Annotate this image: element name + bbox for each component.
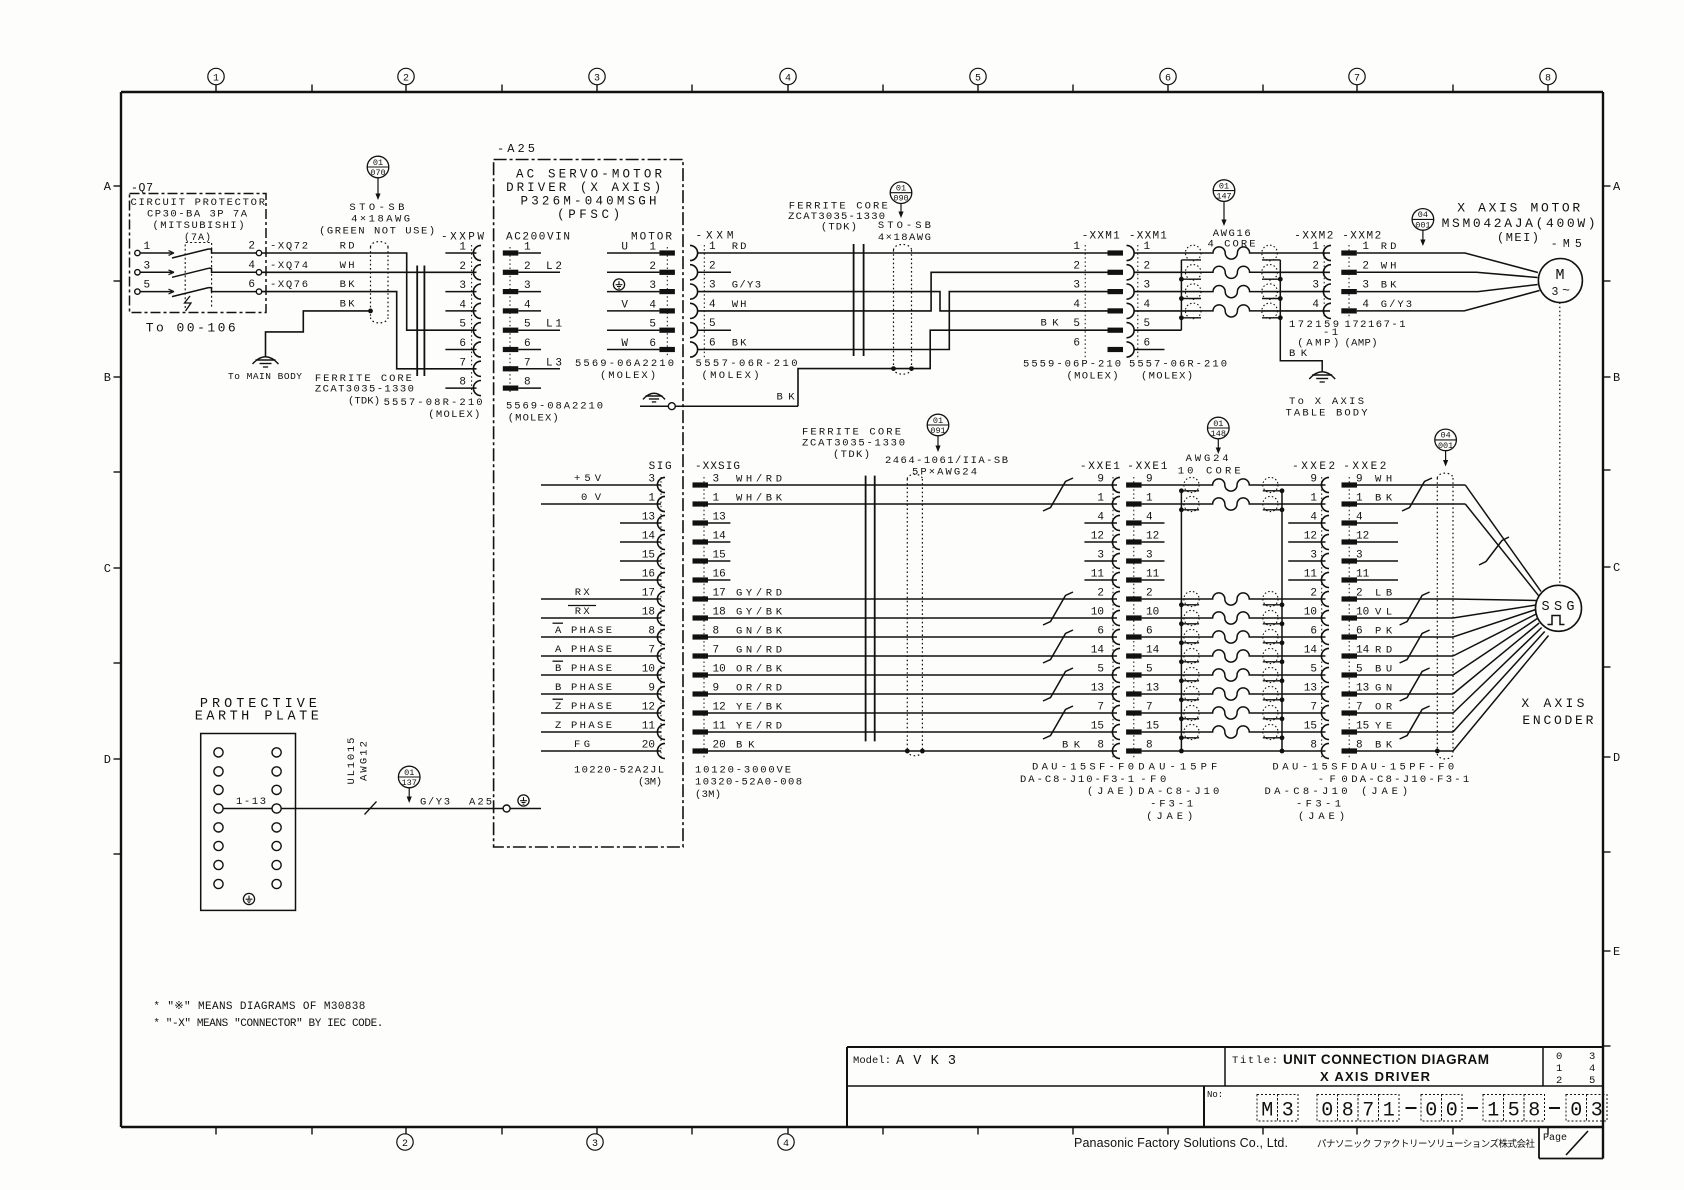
svg-text:1: 1 [713,493,720,505]
svg-text:14: 14 [713,531,727,543]
cable AWG16 pair shields left [1185,245,1201,319]
svg-text:2: 2 [1310,588,1317,600]
svg-text:5: 5 [1589,1075,1595,1087]
svg-text:15: 15 [713,550,726,562]
svg-text:13: 13 [1304,683,1317,695]
svg-text:2: 2 [459,261,466,273]
svg-text:5: 5 [1356,664,1363,676]
svg-text:7: 7 [1354,73,1360,84]
svg-text:10320-52A0-008: 10320-52A0-008 [695,777,802,789]
title block frame [847,1047,1603,1127]
To 00-106 note [146,321,236,336]
motor M5 label [1442,201,1596,252]
connector XXE1 part numbers [1020,762,1219,824]
svg-text:4: 4 [1310,512,1317,524]
svg-text:7: 7 [1097,702,1104,714]
svg-text:(TDK): (TDK) [348,396,380,408]
svg-text:1: 1 [1556,1063,1562,1075]
ferrite core ZCAT3035-1330 encoder [866,476,875,742]
signal labels of SIG [553,473,613,751]
svg-text:001: 001 [1415,220,1430,230]
svg-text:01: 01 [896,184,906,194]
svg-text:-F0: -F0 [1140,774,1166,786]
ferrite core label left [315,373,414,408]
wires XXE2 to encoder sheath [1357,485,1465,751]
svg-text:DAU-15PF-F0: DAU-15PF-F0 [1351,762,1454,774]
connector AC200VIN part number [506,401,603,425]
cable sheath encoder right [1435,473,1453,759]
svg-text:-XQ74: -XQ74 [270,260,308,272]
svg-text:-XQ72: -XQ72 [270,241,308,253]
svg-text:8: 8 [1342,1100,1354,1123]
breaker linkage (7A) [184,232,212,311]
svg-text:14: 14 [1091,645,1105,657]
wire XXM1-RD [698,252,1108,254]
circuit protector Q7 label [131,182,153,195]
svg-text:4: 4 [1097,512,1104,524]
svg-text:5: 5 [1073,318,1080,330]
svg-text:A: A [555,644,562,656]
svg-text:(3M): (3M) [638,777,662,789]
revision mark 01/090 [890,182,912,218]
page field [1539,1127,1603,1159]
svg-text:EARTH PLATE: EARTH PLATE [195,710,319,725]
svg-text:8: 8 [1545,73,1551,84]
svg-text:5: 5 [649,319,656,331]
ground to X axis table body [1286,372,1369,420]
svg-text:B: B [1613,371,1620,385]
svg-text:4: 4 [783,1139,789,1150]
svg-text:3: 3 [592,1139,598,1150]
svg-text:5: 5 [1144,318,1151,330]
svg-text:DRIVER (X AXIS): DRIVER (X AXIS) [506,181,661,195]
svg-text:18: 18 [642,607,655,619]
svg-text:+5V: +5V [574,473,602,485]
svg-text:C: C [104,562,111,576]
svg-text:W: W [621,338,628,350]
svg-text:3: 3 [649,280,656,292]
cable break marks left [1043,478,1073,739]
svg-text:1: 1 [1097,493,1104,505]
svg-text:5: 5 [524,319,531,331]
svg-text:-XXE1: -XXE1 [1080,461,1120,473]
encoder label [1521,696,1593,728]
svg-text:14: 14 [1356,645,1370,657]
svg-text:A25: A25 [469,797,492,809]
svg-text:RX: RX [575,606,591,618]
svg-text:8: 8 [1356,740,1363,752]
svg-text:No:: No: [1207,1090,1223,1100]
svg-text:148: 148 [1211,429,1226,439]
svg-text:2: 2 [1556,1075,1562,1087]
svg-text:6: 6 [1073,338,1080,350]
svg-text:6: 6 [248,279,255,291]
svg-text:9: 9 [1097,474,1104,486]
svg-text:090: 090 [893,194,908,204]
svg-text:6: 6 [649,338,656,350]
svg-text:16: 16 [642,569,655,581]
svg-text:(7A): (7A) [184,232,211,244]
svg-text:10: 10 [1091,607,1104,619]
svg-text:1: 1 [524,242,531,254]
svg-text:13: 13 [1146,683,1159,695]
svg-text:-XXE2: -XXE2 [1292,461,1335,473]
cable AWG16 pair shields right [1262,245,1278,319]
svg-text:6: 6 [1356,626,1363,638]
svg-text:(TDK): (TDK) [821,222,857,234]
svg-text:PHASE: PHASE [571,644,612,656]
svg-text:13: 13 [1091,683,1104,695]
revision mark 01/070 [367,156,389,200]
svg-text:CIRCUIT PROTECTOR: CIRCUIT PROTECTOR [131,197,266,209]
svg-text:パナソニック ファクトリーソリューションズ株式会社: パナソニック ファクトリーソリューションズ株式会社 [1317,1138,1535,1150]
cable sheath STO-SB left [371,242,389,323]
svg-text:8: 8 [1146,740,1153,752]
svg-text:11: 11 [1146,569,1160,581]
svg-text:Panasonic Factory Solutions Co: Panasonic Factory Solutions Co., Ltd. [1074,1136,1288,1150]
svg-text:3: 3 [1282,1100,1294,1123]
svg-text:2: 2 [709,260,716,272]
svg-text:5: 5 [709,318,716,330]
svg-text:4: 4 [1356,512,1363,524]
cable AWG24 pair shields right [1263,477,1278,739]
svg-text:(AMP): (AMP) [1345,338,1378,350]
svg-text:4: 4 [1362,299,1369,311]
svg-text:-XXE2: -XXE2 [1343,461,1386,473]
svg-text:8: 8 [648,626,655,638]
svg-text:15: 15 [1146,721,1159,733]
svg-text:6: 6 [1146,626,1153,638]
breaker pole 5-6 [135,279,262,297]
svg-text:01: 01 [373,158,383,168]
svg-text:10: 10 [642,664,655,676]
svg-text:V: V [621,299,628,311]
connector MOTOR part number [575,358,674,382]
svg-text:(GREEN NOT USE): (GREEN NOT USE) [319,226,435,238]
svg-text:091: 091 [930,426,945,436]
svg-text:3: 3 [1144,280,1151,292]
svg-text:4: 4 [248,260,255,272]
connector pair XXE2 [1263,461,1398,759]
svg-text:3: 3 [1552,286,1559,299]
ferrite core label encoder [802,427,905,462]
svg-text:SIG: SIG [649,461,672,473]
drawing number field [1207,1090,1607,1123]
svg-text:3: 3 [594,73,600,84]
svg-text:10: 10 [713,664,726,676]
svg-text:11: 11 [642,721,656,733]
svg-text:0: 0 [1425,1100,1437,1123]
svg-text:1: 1 [1146,493,1153,505]
svg-text:A: A [1613,180,1621,194]
svg-text:5: 5 [1310,664,1317,676]
wire shield BK to XXM1 pin5 [777,330,1108,406]
wires XXSIG to XXE1 [708,485,1117,751]
svg-text:1: 1 [1312,241,1319,253]
revision mark 01/148 [1208,417,1230,454]
svg-text:7: 7 [1362,1100,1374,1123]
svg-text:8: 8 [713,626,720,638]
svg-text:E: E [1613,945,1620,959]
svg-text:3: 3 [1589,1051,1595,1063]
circuit protector Q7 box [130,194,267,313]
wire labels UL1015 AWG12 [346,738,371,785]
connector XXM1 part numbers [1023,359,1227,383]
svg-text:To 00-106: To 00-106 [146,321,236,336]
svg-text:5569-08A2210: 5569-08A2210 [506,401,603,413]
servo driver A25 box [494,142,683,847]
connector XXPW [441,232,484,397]
svg-text:B: B [104,371,111,385]
connector XXSIG [693,461,783,759]
svg-text:12: 12 [713,702,726,714]
cable sheath STO-SB mid [891,244,914,374]
svg-text:PHASE: PHASE [571,720,612,732]
svg-text:2: 2 [1097,588,1104,600]
revision mark 04/001 encoder [1435,429,1457,466]
svg-text:10: 10 [1146,607,1159,619]
svg-text:* "※" MEANS DIAGRAMS OF M30838: * "※" MEANS DIAGRAMS OF M30838 [153,1001,365,1013]
svg-text:(3M): (3M) [695,789,721,801]
svg-text:3: 3 [713,474,720,486]
svg-text:147: 147 [1216,192,1231,202]
svg-text:4: 4 [1589,1063,1595,1075]
svg-text:Z: Z [555,720,561,732]
svg-text:(MOLEX): (MOLEX) [702,370,760,382]
svg-text:-XXSIG: -XXSIG [695,461,740,473]
svg-text:BK: BK [732,338,747,350]
cable label STO-SB mid [878,220,931,244]
ferrite core ZCAT3035-1330 left [417,266,424,377]
svg-text:7: 7 [1310,702,1317,714]
model field [853,1054,956,1069]
connector XXM [690,231,761,358]
svg-text:3: 3 [1310,550,1317,562]
svg-text:1: 1 [1487,1100,1499,1123]
wire label G/Y3 A25 [420,797,492,809]
svg-text:2: 2 [1144,260,1151,272]
svg-text:(MOLEX): (MOLEX) [1141,371,1193,383]
svg-text:7: 7 [459,357,466,369]
svg-text:(MOLEX): (MOLEX) [508,413,559,425]
svg-text:6: 6 [459,338,466,350]
sheet grid numbers [1556,1051,1595,1087]
connector pair XXM1 [1041,231,1202,358]
revision mark 01/091 [927,414,949,452]
svg-text:U: U [621,242,628,254]
svg-text:2: 2 [1356,588,1363,600]
svg-text:14: 14 [642,531,656,543]
svg-text:AWG12: AWG12 [359,741,371,781]
svg-text:13: 13 [1356,683,1369,695]
svg-text:(MEI): (MEI) [1497,231,1539,245]
svg-text:3: 3 [1591,1100,1603,1123]
svg-text:PHASE: PHASE [571,682,612,694]
svg-text:2: 2 [248,241,255,253]
svg-text:3: 3 [459,280,466,292]
svg-text:7: 7 [524,357,531,369]
svg-text:6: 6 [1144,338,1151,350]
svg-text:01: 01 [1213,419,1223,429]
svg-text:DA-C8-J10: DA-C8-J10 [1265,786,1348,798]
svg-text:DAU-15SF-F0: DAU-15SF-F0 [1032,762,1134,774]
svg-text:070: 070 [370,168,385,178]
svg-text:10: 10 [1356,607,1369,619]
svg-text:04: 04 [1440,431,1450,441]
svg-text:12: 12 [1146,531,1159,543]
cable label STO-SB 4x18AWG [319,202,435,238]
svg-text:1: 1 [648,493,655,505]
svg-text:3: 3 [709,280,716,292]
svg-text:4×18AWG: 4×18AWG [878,232,931,244]
svg-text:1-13: 1-13 [236,796,266,808]
wire green BK to main body [266,298,373,357]
revision mark 01/147 [1213,180,1235,226]
ferrite core label mid [788,201,888,234]
svg-text:4: 4 [1144,299,1151,311]
svg-text:(TDK): (TDK) [833,449,870,461]
shield bus left of AWG16 [1179,260,1201,330]
svg-text:2: 2 [524,261,531,273]
svg-text:DA-C8-J10: DA-C8-J10 [1138,786,1219,798]
svg-text:PHASE: PHASE [571,625,612,637]
servo driver A25 title [506,168,662,223]
svg-text:04: 04 [1418,210,1428,220]
svg-text:12: 12 [1091,531,1104,543]
svg-text:9: 9 [1146,474,1153,486]
breaker pole 1-2 [135,241,262,259]
svg-text:11: 11 [713,721,727,733]
svg-text:14: 14 [1146,645,1160,657]
svg-text:20: 20 [642,740,655,752]
svg-text:4: 4 [1073,299,1080,311]
svg-text:2464-1061/IIA-SB: 2464-1061/IIA-SB [885,455,1008,467]
svg-text:14: 14 [1304,645,1318,657]
svg-text:01: 01 [404,768,414,778]
cable AWG24 cores [1199,479,1263,738]
wire XXM3-G/Y3 to XXM1 pin4 [698,292,1108,311]
wire XQ72 RD [262,241,477,331]
svg-text:1: 1 [1383,1100,1395,1123]
svg-text:1: 1 [144,241,151,253]
svg-text:TABLE BODY: TABLE BODY [1286,408,1369,420]
svg-text:6: 6 [1165,73,1171,84]
svg-text:Page: Page [1543,1133,1567,1144]
svg-text:DA-C8-J10-F3-1: DA-C8-J10-F3-1 [1020,774,1134,786]
svg-text:15: 15 [1304,721,1317,733]
svg-text:3: 3 [1362,280,1369,292]
cable AWG24 pair shields left [1184,477,1199,739]
svg-text:6: 6 [709,338,716,350]
svg-text:16: 16 [713,569,726,581]
svg-text:Model:: Model: [853,1055,891,1067]
svg-text:1: 1 [213,73,219,84]
company name [1074,1136,1535,1150]
svg-text:7: 7 [1356,702,1363,714]
svg-text:0: 0 [1446,1100,1458,1123]
svg-text:15: 15 [1091,721,1104,733]
wires XXM2 to motor M5 [1357,253,1540,311]
connector XXPW part number [384,397,483,421]
svg-text:0: 0 [1570,1100,1582,1123]
wire XQ74 WH [262,260,477,273]
svg-text:9: 9 [648,683,655,695]
earth symbol at A25 terminal [518,795,529,806]
svg-text:Z: Z [555,701,561,713]
svg-text:4: 4 [459,299,466,311]
svg-text:(MOLEX): (MOLEX) [600,370,656,382]
svg-text:AC200VIN: AC200VIN [506,232,570,244]
svg-text:5: 5 [1508,1100,1520,1123]
svg-text:11: 11 [1304,569,1318,581]
cable label AWG24 10 CORE [1178,453,1241,478]
connector MOTOR of A25 [607,232,675,356]
svg-text:8: 8 [524,377,531,389]
svg-text:4: 4 [709,299,716,311]
svg-text:2: 2 [403,73,409,84]
svg-text:UNIT CONNECTION DIAGRAM: UNIT CONNECTION DIAGRAM [1283,1052,1489,1067]
svg-text:RX: RX [575,587,591,599]
svg-text:3: 3 [1073,280,1080,292]
svg-text:0: 0 [1556,1051,1562,1063]
svg-text:BK: BK [340,279,356,291]
svg-text:1: 1 [709,241,716,253]
svg-text:1: 1 [1144,241,1151,253]
svg-text:3: 3 [1356,550,1363,562]
svg-text:5: 5 [144,280,151,292]
svg-text:4: 4 [524,299,531,311]
svg-text:5: 5 [1146,664,1153,676]
svg-text:11: 11 [1356,569,1370,581]
svg-text:8: 8 [1097,740,1104,752]
svg-text:01: 01 [933,416,943,426]
encoder SSG [1536,585,1582,631]
circuit protector Q7 name [131,197,266,232]
svg-text:To MAIN BODY: To MAIN BODY [228,371,302,382]
svg-text:1: 1 [649,242,656,254]
svg-text:15: 15 [642,550,655,562]
svg-text:12: 12 [1304,531,1317,543]
svg-text:8: 8 [1310,740,1317,752]
svg-text:13: 13 [642,512,655,524]
svg-text:1: 1 [459,242,466,254]
svg-text:4: 4 [1146,512,1153,524]
svg-text:10: 10 [1304,607,1317,619]
shield bus right of AWG24 [1263,488,1285,753]
notes [153,1001,383,1030]
svg-text:2: 2 [649,261,656,273]
svg-text:CP30-BA 3P 7A: CP30-BA 3P 7A [147,209,248,221]
svg-text:17: 17 [713,588,726,600]
connector XXM2 part numbers [1289,319,1406,350]
ferrite core ZCAT3035-1330 mid [854,244,864,356]
wires into encoder SSG [1437,485,1548,751]
svg-text:12: 12 [642,702,655,714]
svg-text:A: A [555,625,562,637]
svg-text:1: 1 [1362,241,1369,253]
title field [1232,1052,1489,1084]
svg-text:5: 5 [459,319,466,331]
svg-text:7: 7 [1146,702,1153,714]
svg-text:-XXM1: -XXM1 [1082,231,1120,243]
svg-text:13: 13 [713,512,726,524]
connector pair XXE1 [1062,461,1199,759]
svg-text:M: M [1261,1100,1273,1123]
earth terminal of A25 [640,393,798,409]
svg-text:D: D [104,753,111,767]
ground to main body [228,357,302,382]
earth symbol at MOTOR pin 3 [613,279,624,290]
